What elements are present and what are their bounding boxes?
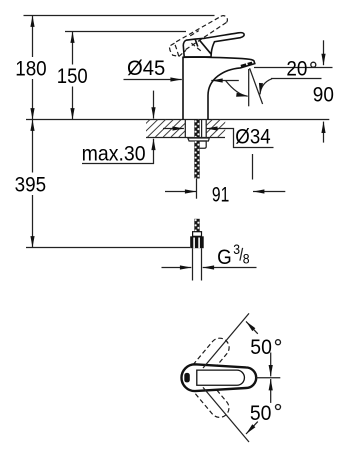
svg-text:20: 20	[286, 55, 307, 80]
svg-text:8: 8	[243, 250, 250, 266]
svg-text:50: 50	[250, 334, 272, 359]
svg-text:180: 180	[15, 56, 47, 81]
svg-text:90: 90	[313, 81, 334, 106]
svg-text:91: 91	[212, 182, 229, 207]
svg-text:Ø34: Ø34	[235, 124, 270, 149]
svg-text:max.30: max.30	[82, 141, 146, 166]
svg-text:G: G	[217, 244, 232, 269]
svg-text:395: 395	[15, 171, 46, 196]
svg-text:150: 150	[57, 63, 88, 88]
svg-text:3: 3	[233, 242, 240, 257]
svg-text:Ø45: Ø45	[127, 55, 165, 80]
svg-text:50: 50	[250, 400, 272, 425]
